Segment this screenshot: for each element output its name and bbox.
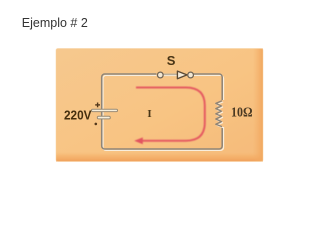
svg-text:10Ω: 10Ω	[231, 105, 253, 120]
wire loop highlight	[103, 75, 224, 150]
resistor R zigzag	[216, 101, 222, 127]
slide background	[0, 0, 320, 180]
switch contact circle left	[157, 72, 163, 78]
switch contact circle right	[188, 72, 194, 78]
arrowhead	[134, 137, 143, 144]
minus dot	[95, 123, 98, 126]
resistor wire gap	[216, 100, 228, 127]
figure background panel	[56, 49, 263, 162]
switch blade wire	[163, 73, 178, 75]
wire loop	[102, 74, 223, 149]
plus sign	[95, 103, 100, 108]
svg-text:220V: 220V	[64, 108, 92, 122]
battery plate long (+)	[92, 109, 118, 111]
svg-text:I: I	[147, 108, 151, 120]
mask gaps over wire: switch gap	[157, 72, 194, 78]
battery plate short (-)	[97, 116, 110, 119]
svg-text:S: S	[167, 53, 176, 68]
current loop red arrow	[134, 88, 205, 145]
resistor zigzag highlight	[217, 102, 223, 128]
svg-text:Ejemplo # 2: Ejemplo # 2	[22, 16, 88, 30]
switch blade arrow	[177, 71, 187, 79]
